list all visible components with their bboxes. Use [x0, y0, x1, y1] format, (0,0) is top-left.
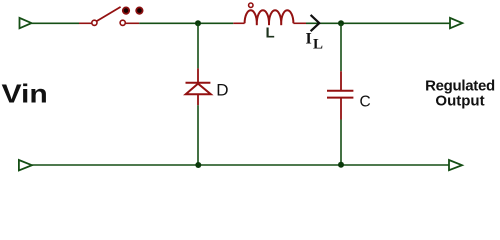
svg-text:L: L — [313, 36, 323, 52]
switch SW left pole circle — [92, 20, 97, 25]
wire top rail maroon: inductor out — [293, 22, 306, 24]
output arrow (bottom-right return terminal) — [449, 160, 462, 170]
wire diode branch maroon upper — [197, 68, 199, 82]
switch indicator dot 2 — [136, 7, 142, 13]
inductor coil valley stub 1 — [256, 23, 258, 25]
svg-text:Vin: Vin — [2, 79, 48, 108]
diode D cathode bar — [186, 82, 211, 84]
wire capacitor branch green lower — [340, 120, 342, 166]
wire diode branch green lower — [197, 105, 199, 165]
wire bottom rail green — [32, 164, 449, 166]
node D junction dot (capacitor on bottom rail) — [338, 162, 344, 168]
capacitor C bottom plate — [327, 97, 353, 99]
svg-text:L: L — [266, 25, 275, 42]
wire top rail green: arrow to switch — [32, 22, 80, 24]
switch SW blade (open) — [97, 7, 121, 21]
inductor coil valley stub 2 — [268, 23, 270, 25]
wire capacitor branch maroon lower — [340, 98, 342, 120]
inductor coil valley stub 3 — [280, 23, 282, 25]
svg-text:I: I — [306, 30, 312, 47]
inductor L terminal circle marker — [249, 3, 253, 7]
capacitor C top plate — [327, 90, 353, 92]
wire top rail maroon: switch right pole out — [125, 22, 139, 24]
node B junction dot (capacitor tap on top rail) — [338, 20, 344, 26]
switch indicator dot 1 — [123, 7, 129, 13]
input arrow (bottom-left return terminal) — [19, 160, 32, 170]
wire capacitor branch maroon upper — [340, 71, 342, 91]
output arrow (top-right terminal) — [450, 18, 462, 28]
svg-text:Output: Output — [435, 93, 484, 110]
wire diode branch green upper — [197, 23, 199, 68]
switch SW right pole circle — [120, 20, 125, 25]
svg-text:C: C — [360, 94, 371, 111]
wire top rail maroon: into switch left pole — [79, 22, 92, 24]
node C junction dot (diode on bottom rail) — [195, 162, 201, 168]
inductor L coil — [245, 10, 294, 23]
node A junction dot (diode tap on top rail) — [195, 20, 201, 26]
wire top rail maroon: into inductor — [233, 22, 244, 24]
wire top rail green: switch to inductor — [139, 22, 233, 24]
wire top rail green: inductor to output — [306, 22, 450, 24]
wire capacitor branch green upper — [340, 23, 342, 71]
wire diode branch maroon lower — [197, 94, 199, 105]
svg-text:D: D — [216, 81, 228, 100]
input arrow (top-left Vin terminal) — [20, 18, 32, 28]
diode D triangle — [186, 84, 211, 95]
current direction arrow IL — [311, 15, 320, 31]
